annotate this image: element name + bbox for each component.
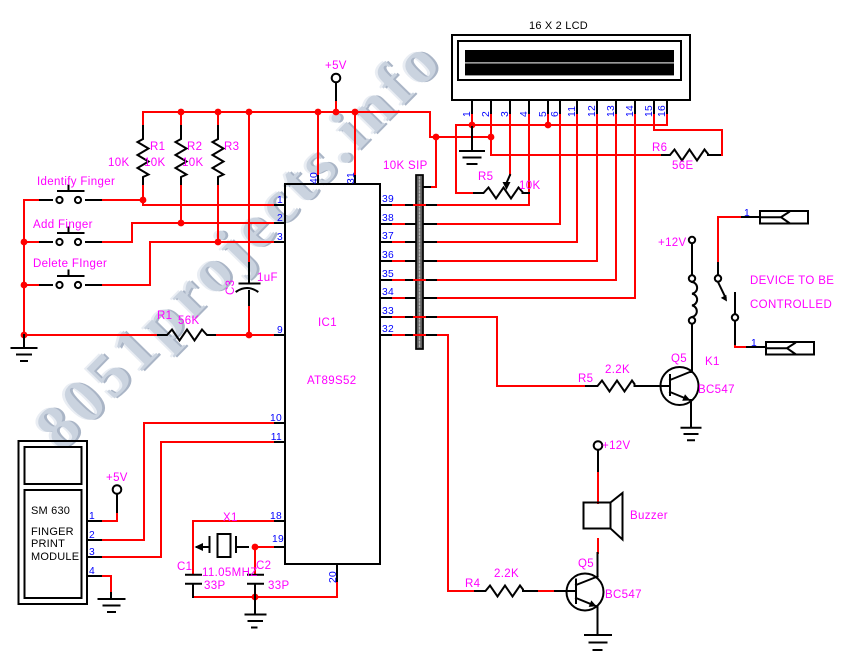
capacitor C3 1uF <box>237 263 260 305</box>
connector 1 top lead <box>742 216 760 218</box>
wire row37 <box>391 241 577 243</box>
svg-text:K1: K1 <box>705 356 720 368</box>
pin 31 stub <box>354 176 356 184</box>
pin 40 stub <box>317 176 319 184</box>
svg-text:C2: C2 <box>256 560 271 572</box>
SIP row crossings <box>414 205 425 335</box>
wire pin9 row right of 56K <box>215 334 275 336</box>
svg-text:16: 16 <box>657 105 668 117</box>
svg-text:11: 11 <box>567 106 578 117</box>
ground crystal <box>246 597 266 628</box>
wire R6 feed line <box>491 154 662 156</box>
wire buzzer to collector red <box>597 539 599 553</box>
transistor Q5 buzzer driver <box>567 574 604 611</box>
module pin stubs <box>87 521 101 576</box>
svg-text:2.2K: 2.2K <box>494 568 519 580</box>
buzzer +12V terminal <box>594 441 603 450</box>
svg-text:R6: R6 <box>652 142 667 154</box>
pin 3 stub <box>275 241 285 243</box>
wire crystal bottom rail <box>193 596 337 598</box>
svg-text:10K: 10K <box>182 157 204 169</box>
pin 9 stub <box>275 334 285 336</box>
svg-text:4: 4 <box>89 566 95 577</box>
svg-text:2: 2 <box>89 530 95 541</box>
svg-text:R3: R3 <box>224 141 239 153</box>
wire R2 top lead red <box>180 112 182 126</box>
connector 2 body <box>766 342 814 355</box>
svg-text:10K: 10K <box>108 157 130 169</box>
wire rail1 left drop to R5 <box>456 125 474 193</box>
svg-text:38: 38 <box>382 213 394 224</box>
resistor R6 56E <box>662 150 720 161</box>
IC1 AT89S52 body <box>285 184 380 564</box>
node C3 bottom <box>246 332 253 339</box>
svg-text:1: 1 <box>89 511 95 522</box>
ground Q5 relay <box>682 428 701 440</box>
svg-text:BC547: BC547 <box>698 384 735 396</box>
svg-text:9: 9 <box>277 325 283 336</box>
node rail-pin40 <box>315 109 322 116</box>
node rail2 SIP <box>433 134 440 141</box>
pin 34 stub <box>380 297 391 299</box>
svg-text:13: 13 <box>606 105 617 117</box>
watermark <box>21 22 457 464</box>
svg-text:1: 1 <box>744 208 750 219</box>
wire switch3 jog to pin 3 <box>150 242 275 285</box>
svg-text:R4: R4 <box>465 578 481 590</box>
SIP left stubs <box>406 205 415 335</box>
svg-text:36: 36 <box>382 250 394 261</box>
crystal X1 <box>197 537 248 552</box>
wire LCD pin13 column to row35 <box>615 113 617 280</box>
wire R1 top lead red <box>142 112 144 126</box>
crystal junction arrow <box>195 543 204 551</box>
svg-text:X1: X1 <box>223 512 238 524</box>
svg-text:1: 1 <box>751 338 757 349</box>
node left rail sw2 <box>21 239 28 246</box>
pin 10 stub <box>275 422 285 424</box>
pin 33 stub <box>380 316 391 318</box>
pin 19 stub <box>275 546 285 548</box>
SIP right stubs <box>424 187 436 335</box>
svg-text:R5: R5 <box>478 171 493 183</box>
node left rail sw3 <box>21 282 28 289</box>
svg-text:14: 14 <box>625 105 636 117</box>
wire LCD pin6 column to row38 <box>559 113 561 224</box>
switch Add Finger <box>40 228 101 243</box>
svg-text:C3: C3 <box>225 280 237 295</box>
wire relay contact top <box>718 217 742 275</box>
ground module pin4 <box>99 593 125 612</box>
svg-text:C1: C1 <box>177 561 192 573</box>
text labels black <box>31 20 588 563</box>
node left rail pin9 <box>21 332 28 339</box>
LCD display black bars <box>465 50 674 75</box>
pin 39 stub <box>380 204 391 206</box>
svg-text:32: 32 <box>382 324 394 335</box>
svg-text:35: 35 <box>382 269 394 280</box>
wire module pin1 to +5V <box>101 512 117 521</box>
svg-text:Q5: Q5 <box>671 353 687 365</box>
relay coil <box>689 275 695 281</box>
wire row38 <box>391 223 560 225</box>
svg-text:Add Finger: Add Finger <box>33 219 93 231</box>
svg-text:40: 40 <box>309 172 320 184</box>
wire pin40 column red <box>317 112 319 176</box>
svg-text:18: 18 <box>270 511 282 522</box>
wire LCD gnd rail1 <box>456 124 667 126</box>
text labels magenta <box>33 60 834 601</box>
wire switch2 jog to pin 2 <box>132 223 275 242</box>
wire crystal junction to C2 <box>254 547 256 574</box>
connector 1 body <box>760 211 808 224</box>
resistor R5 10K pot body <box>474 188 529 199</box>
wire pin20 column red <box>336 580 338 597</box>
svg-text:4: 4 <box>519 111 530 117</box>
svg-text:20: 20 <box>328 571 339 583</box>
capacitor C2 33P <box>248 575 263 597</box>
transistor Q5 relay driver <box>661 367 699 405</box>
wire row36 <box>391 260 597 262</box>
svg-text:19: 19 <box>272 534 284 545</box>
pin 32 stub <box>380 334 391 336</box>
node rail2 LCD pin2 <box>488 134 495 141</box>
node rail +5V <box>333 109 340 116</box>
svg-text:37: 37 <box>382 231 394 242</box>
svg-text:DEVICE TO BE: DEVICE TO BE <box>750 275 834 287</box>
pin 1 stub <box>275 204 285 206</box>
wire crystal left column <box>192 521 194 574</box>
wire relay NO contact to connector <box>735 344 747 347</box>
LCD inner frame <box>458 41 681 80</box>
relay K1 +12V terminal <box>689 237 695 243</box>
resistor R1 10K <box>138 126 149 184</box>
ground Q5 buzzer <box>585 635 611 650</box>
resistor R2 10K <box>176 126 187 184</box>
wire row35 <box>391 279 616 281</box>
wire switch2 row <box>24 241 132 243</box>
relay armature arrowhead <box>721 295 727 302</box>
wire row39 <box>391 204 529 206</box>
module SM630 body <box>19 441 88 604</box>
wire LCD pin5 drop <box>547 113 549 125</box>
wire pin9 row left <box>24 334 158 336</box>
svg-text:Delete FInger: Delete FInger <box>33 258 107 270</box>
svg-text:AT89S52: AT89S52 <box>307 375 357 387</box>
ground left rail <box>12 335 37 361</box>
svg-text:16 X 2 LCD: 16 X 2 LCD <box>529 20 588 32</box>
wire LCD pin1 drop <box>471 113 473 125</box>
pin 20 stub <box>336 564 338 581</box>
node R1 bottom <box>140 197 147 204</box>
node crystal right <box>252 544 259 551</box>
svg-text:FINGER: FINGER <box>31 526 74 538</box>
wire R3 top lead red <box>217 112 219 126</box>
pin 35 stub <box>380 279 391 281</box>
pin 37 stub <box>380 241 391 243</box>
wire R2 bottom to pin2 row <box>180 184 182 223</box>
wire buzzer top red <box>597 471 599 503</box>
wire +5V lead red part <box>335 100 337 112</box>
wire R3 bottom to pin3 row <box>217 184 219 242</box>
pin 2 stub <box>275 222 285 224</box>
wire LCD pin15 column <box>654 113 722 155</box>
svg-text:3: 3 <box>277 232 283 243</box>
LCD outer body <box>452 35 690 100</box>
node rail1 LCD pin5 <box>545 122 552 129</box>
wire row32 to buzzer driver <box>391 335 475 591</box>
wire left rail <box>23 200 25 342</box>
node rail-R3 <box>215 109 222 116</box>
emitter arrowhead relay Q5 <box>682 394 690 400</box>
wire crystal right to pin19 <box>255 546 275 548</box>
pin 18 stub <box>275 520 285 522</box>
svg-text:2: 2 <box>481 111 492 117</box>
pin 11 stub <box>275 441 285 443</box>
svg-text:Buzzer: Buzzer <box>630 510 668 522</box>
wire LCD pin11 column to row37 <box>576 113 578 242</box>
svg-text:PRINT: PRINT <box>31 538 65 550</box>
wire switch3 row <box>24 284 150 286</box>
svg-text:CONTROLLED: CONTROLLED <box>750 299 832 311</box>
svg-text:2: 2 <box>277 213 283 224</box>
buzzer body <box>584 503 611 529</box>
+5V terminal top <box>332 74 341 83</box>
node R3 bottom <box>215 239 222 246</box>
svg-text:1: 1 <box>462 111 473 117</box>
wire R5 relay base red <box>537 590 555 592</box>
LCD pin stubs <box>472 100 667 113</box>
svg-text:R1: R1 <box>150 141 165 153</box>
svg-text:3: 3 <box>89 547 95 558</box>
svg-text:5: 5 <box>538 111 549 117</box>
svg-text:2.2K: 2.2K <box>605 364 630 376</box>
resistor R1 56K <box>158 330 215 341</box>
svg-text:10: 10 <box>270 413 282 424</box>
svg-text:R2: R2 <box>187 141 202 153</box>
resistor R5 2.2K <box>586 381 635 392</box>
node R2 bottom <box>178 220 185 227</box>
wire module pin2 to IC pin10 <box>101 423 275 540</box>
wire pin31 column red <box>354 112 356 176</box>
svg-text:BC547: BC547 <box>605 589 642 601</box>
switch Identify Finger <box>40 186 101 201</box>
module +5V terminal <box>113 485 122 494</box>
svg-text:6: 6 <box>550 111 561 117</box>
svg-text:31: 31 <box>346 172 357 184</box>
svg-text:R1: R1 <box>157 310 172 322</box>
resistor R4 2.2K <box>475 586 537 597</box>
wire SIP top to +5V <box>430 137 436 187</box>
svg-text:33: 33 <box>382 306 394 317</box>
wire LCD pin3 column <box>509 113 511 175</box>
wire +5V top rail <box>143 111 430 113</box>
pot wiper arrowhead <box>503 182 511 190</box>
wire module pin4 to ground <box>101 576 111 593</box>
svg-text:34: 34 <box>382 287 394 298</box>
wire LCD pin16 column <box>666 113 668 125</box>
pin 38 stub <box>380 223 391 225</box>
wire switch1 jog to pin 1 <box>143 200 275 205</box>
svg-text:+12V: +12V <box>602 440 631 452</box>
wire LCD pin14 column to row34 <box>634 113 636 298</box>
node rail-R2 <box>178 109 185 116</box>
svg-text:+5V: +5V <box>325 60 347 72</box>
svg-text:56E: 56E <box>672 160 694 172</box>
svg-text:10K: 10K <box>144 157 166 169</box>
wire C3 column red upper <box>248 112 250 263</box>
svg-text:MODULE: MODULE <box>31 551 79 563</box>
wire rail right corner down to LCD +5V branch <box>430 112 491 137</box>
relay fixed contact <box>734 293 736 314</box>
SIP resistor body <box>416 175 423 349</box>
wire C3 bottom red <box>248 305 250 335</box>
svg-text:IC1: IC1 <box>318 317 337 329</box>
resistor R3 10K <box>213 126 224 184</box>
wire LCD pin4 column to row39 <box>528 113 530 205</box>
text labels blue pins <box>89 105 757 583</box>
svg-text:12: 12 <box>587 105 598 117</box>
node rail-pin31 <box>352 109 359 116</box>
emitter arrowhead buzzer Q5 <box>589 600 597 607</box>
svg-text:3: 3 <box>500 111 511 117</box>
svg-text:1uF: 1uF <box>257 272 278 284</box>
relay contact armature <box>715 275 721 281</box>
svg-text:10K: 10K <box>519 180 541 192</box>
wire switch1 row <box>24 199 143 201</box>
switch Delete Finger <box>40 271 101 286</box>
wire row33 to relay driver <box>391 317 586 386</box>
svg-text:56K: 56K <box>178 315 200 327</box>
svg-text:Q5: Q5 <box>578 558 594 570</box>
node C2 bottom <box>252 594 259 601</box>
svg-text:33P: 33P <box>268 580 290 592</box>
ground LCD pin1 <box>460 127 484 164</box>
svg-text:11: 11 <box>271 432 282 443</box>
wire LCD pin2 column <box>490 113 492 155</box>
svg-text:R5: R5 <box>578 373 593 385</box>
wire IC pin18 row <box>193 520 275 522</box>
pot R5 wiper <box>507 175 511 183</box>
wire row34 <box>391 297 635 299</box>
wire R6 right lead red tip <box>720 154 722 156</box>
svg-text:33P: 33P <box>204 580 226 592</box>
wire R1 bottom to junction <box>142 184 144 200</box>
connector 2 lead <box>747 346 766 348</box>
svg-text:+5V: +5V <box>106 472 128 484</box>
node rail1 LCD pin1 <box>469 122 476 129</box>
svg-text:39: 39 <box>382 194 394 205</box>
svg-text:11.05MHZ: 11.05MHZ <box>202 567 258 579</box>
wire LCD pin12 column to row36 <box>596 113 598 261</box>
svg-text:Identify Finger: Identify Finger <box>37 176 115 188</box>
wire module pin3 to IC pin11 <box>101 442 275 557</box>
svg-text:SM 630: SM 630 <box>31 505 70 517</box>
capacitor C1 33P <box>186 575 201 597</box>
svg-text:15: 15 <box>644 105 655 117</box>
node rail-C3 <box>246 109 253 116</box>
svg-text:+12V: +12V <box>658 237 687 249</box>
svg-text:10K SIP: 10K SIP <box>383 160 428 172</box>
svg-text:1: 1 <box>277 195 283 206</box>
pin 36 stub <box>380 260 391 262</box>
